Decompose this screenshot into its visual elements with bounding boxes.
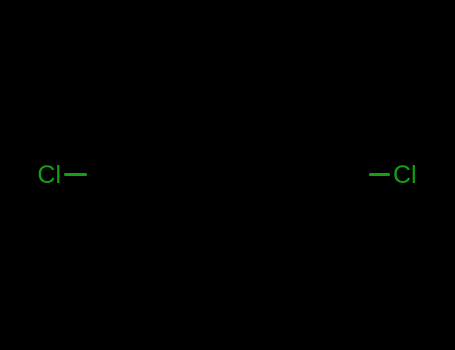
atom label Cl (right chlorine)	[393, 163, 417, 188]
wire / bond C-Cl left green half	[64, 173, 87, 176]
wire / bond C-Cl right green half	[369, 173, 390, 176]
atom label Cl (left chlorine)	[37, 163, 61, 188]
